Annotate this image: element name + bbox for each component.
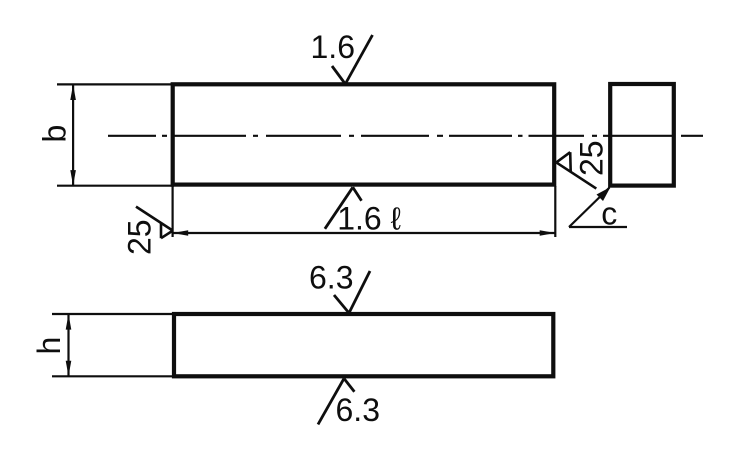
chamfer leader line <box>569 188 610 228</box>
extension line b bottom <box>57 185 174 187</box>
roughness symbol 1.6 bottom <box>325 187 362 229</box>
key front view rectangle <box>174 314 553 376</box>
svg-text:6.3: 6.3 <box>309 259 353 295</box>
svg-text:6.3: 6.3 <box>336 392 380 428</box>
center line <box>108 135 703 137</box>
arrowhead length right <box>540 230 556 236</box>
arrowhead h up <box>66 314 72 330</box>
roughness symbol 1.6 top <box>332 35 373 84</box>
arrowhead chamfer <box>597 187 611 201</box>
svg-text:25: 25 <box>122 219 158 255</box>
key plan view rectangle <box>173 84 555 184</box>
extension line length left <box>172 186 174 237</box>
roughness symbol 6.3 top <box>334 271 370 313</box>
svg-text:1.6: 1.6 <box>311 29 355 65</box>
arrowhead b up <box>70 84 76 100</box>
svg-text:1.6 ℓ: 1.6 ℓ <box>337 201 401 237</box>
extension line length right <box>554 186 556 237</box>
chamfer leader shoulder <box>569 226 627 228</box>
svg-text:h: h <box>31 337 67 355</box>
arrowhead h down <box>66 361 72 377</box>
roughness symbol 25 left <box>136 207 173 239</box>
svg-text:b: b <box>37 125 73 143</box>
roughness symbol 25 right <box>556 152 596 188</box>
dimension line b <box>72 84 74 185</box>
extension line b top <box>57 83 173 85</box>
svg-text:25: 25 <box>574 140 610 176</box>
arrowhead length left <box>173 230 189 236</box>
svg-text:c: c <box>601 196 617 232</box>
roughness symbol 6.3 bottom <box>318 379 354 425</box>
arrowhead b down <box>70 170 76 186</box>
dimension line length <box>173 232 556 234</box>
key end view rectangle <box>610 84 674 186</box>
extension line h top <box>52 313 174 315</box>
extension line h bottom <box>52 375 174 377</box>
dimension line h <box>67 314 69 376</box>
